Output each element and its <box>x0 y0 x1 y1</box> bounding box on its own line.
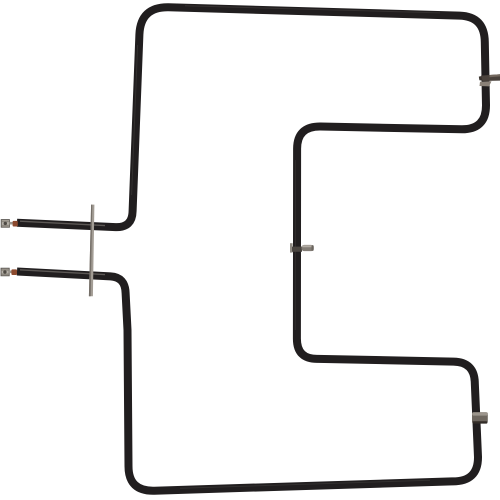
upper right mounting clip <box>479 74 500 86</box>
support pin (middle, on notch vertical) <box>290 243 314 252</box>
lower spade terminal <box>1 268 13 276</box>
mounting bracket plate <box>89 205 95 297</box>
tube highlight streak (lower terminal tube) <box>20 270 105 275</box>
lower terminal ceramic insulator <box>11 269 17 275</box>
tube highlight streak (upper terminal tube) <box>20 221 105 225</box>
upper terminal ceramic insulator <box>13 221 18 227</box>
lower right mounting clip <box>472 412 488 423</box>
tube highlight streak (bottom tube) <box>180 480 430 488</box>
upper spade terminal <box>1 220 13 228</box>
tube highlight streak (top tube) <box>185 6 440 13</box>
mounting bracket plate edge shading <box>89 205 92 297</box>
tube highlight streak (notch vertical tube) <box>294 160 296 330</box>
tube highlight streak (left vertical tube) <box>132 45 138 195</box>
